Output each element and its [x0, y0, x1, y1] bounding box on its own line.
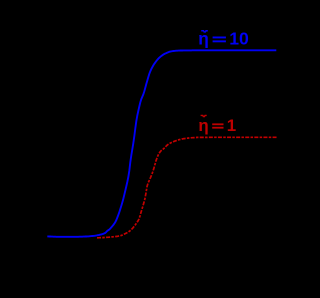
svg-text:1: 1 [227, 116, 236, 135]
svg-text:10: 10 [229, 29, 249, 49]
svg-text:η: η [198, 116, 208, 135]
